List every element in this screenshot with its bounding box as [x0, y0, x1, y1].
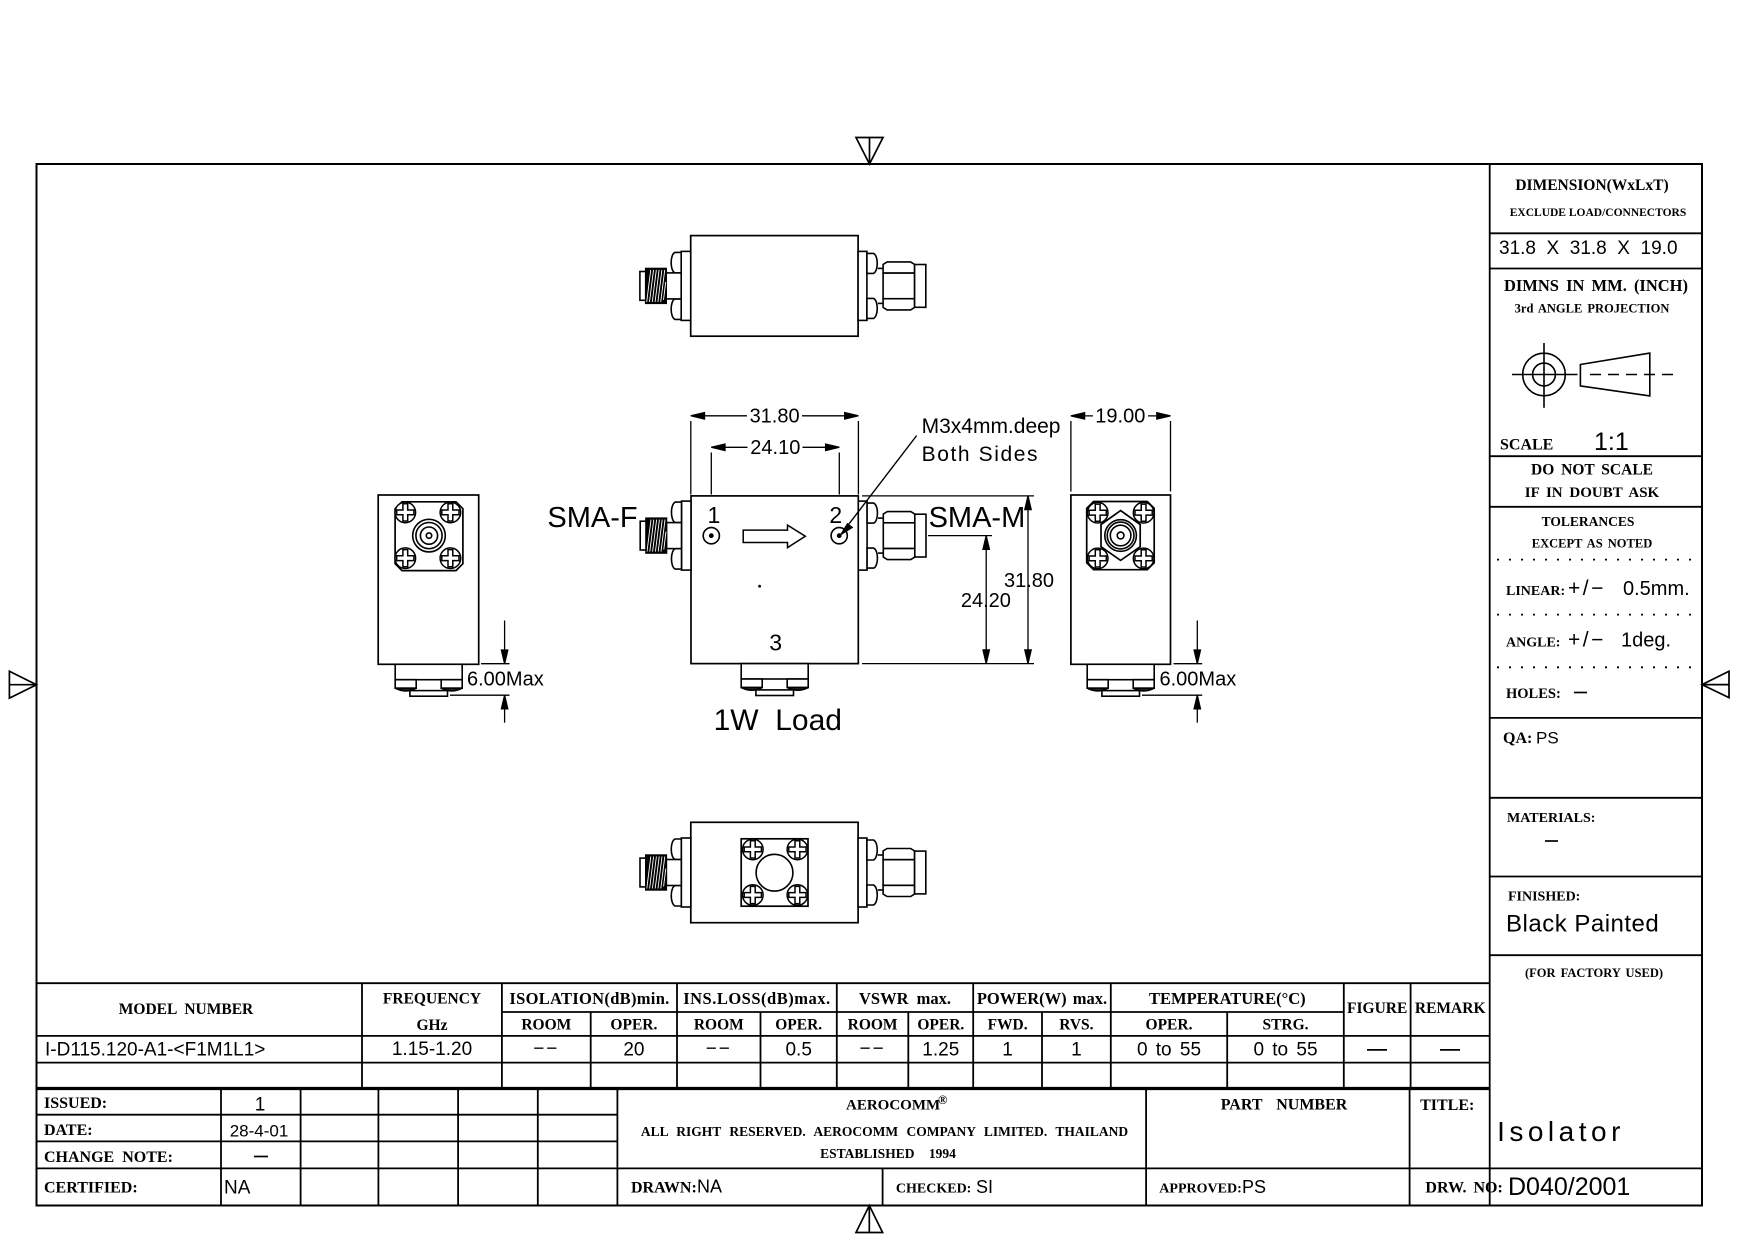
right registration mark: [1702, 671, 1729, 698]
svg-text:−−: −−: [706, 1039, 732, 1060]
QA block: [1503, 729, 1559, 748]
svg-text:IF IN DOUBT ASK: IF IN DOUBT ASK: [1525, 485, 1660, 501]
left view flange plate: [395, 502, 463, 571]
svg-text:QA:: QA:: [1503, 730, 1532, 747]
right view load tab: [1087, 664, 1154, 696]
finished block: [1506, 890, 1659, 938]
right view SMA-M face circles: [1105, 520, 1137, 552]
svg-text:ROOM: ROOM: [848, 1017, 898, 1034]
right side view body: [1071, 495, 1171, 664]
svg-text:FWD.: FWD.: [988, 1017, 1028, 1034]
front view SMA-M connector: [858, 501, 926, 570]
tolerances block: [1506, 514, 1690, 702]
svg-text:TOLERANCES: TOLERANCES: [1542, 514, 1635, 529]
svg-text:0.5: 0.5: [785, 1040, 811, 1061]
bottom view load resistor circle: [756, 854, 793, 891]
svg-text:FREQUENCY: FREQUENCY: [383, 991, 481, 1008]
svg-text:3rd ANGLE PROJECTION: 3rd ANGLE PROJECTION: [1515, 302, 1670, 316]
left view load tab: [395, 664, 462, 696]
svg-text:1.15-1.20: 1.15-1.20: [392, 1039, 472, 1060]
svg-text:GHz: GHz: [417, 1017, 448, 1034]
centre mark dot: [758, 585, 761, 588]
svg-text:ISOLATION(dB)min.: ISOLATION(dB)min.: [509, 989, 669, 1008]
tolerance dotted separators: [1497, 560, 1695, 668]
svg-text:CERTIFIED:: CERTIFIED:: [44, 1180, 138, 1197]
drawn cell: [631, 1177, 722, 1197]
M3 tapped hole note: [922, 415, 1061, 466]
svg-text:SCALE: SCALE: [1500, 437, 1553, 454]
svg-text:20: 20: [623, 1040, 644, 1061]
checked cell: [896, 1177, 993, 1197]
svg-text:NA: NA: [224, 1178, 251, 1199]
leader line to port 2: [841, 436, 917, 535]
svg-text:LINEAR:: LINEAR:: [1506, 584, 1565, 599]
svg-text:(FOR FACTORY USED): (FOR FACTORY USED): [1525, 966, 1663, 980]
svg-text:31.8 X 31.8 X 19.0: 31.8 X 31.8 X 19.0: [1499, 238, 1678, 259]
svg-text:31.80: 31.80: [1004, 570, 1054, 592]
svg-text:CHECKED:: CHECKED:: [896, 1182, 971, 1197]
svg-text:OPER.: OPER.: [917, 1017, 964, 1034]
forward direction arrow: [743, 525, 805, 548]
svg-text:DRAWN:: DRAWN:: [631, 1180, 697, 1197]
svg-text:ALL RIGHT RESERVED. AEROCOMM C: ALL RIGHT RESERVED. AEROCOMM COMPANY LIM…: [641, 1124, 1129, 1139]
svg-text:DRW. NO:: DRW. NO:: [1425, 1180, 1502, 1197]
svg-text:DATE:: DATE:: [44, 1122, 93, 1139]
right view hex nut silhouette: [1101, 511, 1140, 561]
svg-text:19.00: 19.00: [1095, 406, 1145, 428]
svg-text:24.10: 24.10: [750, 437, 800, 459]
right info panel grid: [1490, 164, 1702, 1206]
bottom registration mark: [856, 1206, 883, 1233]
dimension 31.80 vertical: [862, 496, 1034, 664]
title block grid: [37, 1089, 1703, 1205]
bottom view load plate: [741, 839, 808, 906]
port 2 hole: [831, 528, 847, 544]
svg-text:M3x4mm.deep: M3x4mm.deep: [922, 415, 1061, 438]
svg-text:DIMNS IN MM. (INCH): DIMNS IN MM. (INCH): [1504, 276, 1688, 295]
svg-text:DO NOT SCALE: DO NOT SCALE: [1531, 462, 1653, 479]
svg-text:0 to 55: 0 to 55: [1253, 1040, 1317, 1061]
left side view body: [378, 495, 479, 664]
dimension 19.00 horizontal: [1071, 413, 1171, 492]
svg-text:EXCEPT AS NOTED: EXCEPT AS NOTED: [1532, 537, 1652, 551]
svg-text:EXCLUDE LOAD/CONNECTORS: EXCLUDE LOAD/CONNECTORS: [1510, 207, 1686, 219]
svg-text:0.5mm.: 0.5mm.: [1623, 578, 1690, 600]
port 1 hole: [703, 528, 719, 544]
svg-text:INS.LOSS(dB)max.: INS.LOSS(dB)max.: [683, 989, 830, 1008]
svg-text:28-4-01: 28-4-01: [230, 1122, 289, 1141]
svg-text:−−: −−: [859, 1039, 885, 1060]
svg-text:D040/2001: D040/2001: [1508, 1173, 1630, 1201]
svg-text:1: 1: [1002, 1040, 1013, 1061]
top view body: [691, 236, 858, 337]
svg-text:FIGURE: FIGURE: [1347, 1000, 1407, 1017]
svg-text:1: 1: [1071, 1040, 1082, 1061]
svg-text:ROOM: ROOM: [694, 1017, 744, 1034]
dimension header text: [1510, 177, 1686, 219]
svg-text:1:1: 1:1: [1594, 428, 1629, 456]
svg-text:SI: SI: [976, 1177, 993, 1197]
certified row: [44, 1178, 251, 1199]
svg-text:SMA-F: SMA-F: [547, 502, 637, 534]
drawing number cell: [1425, 1173, 1630, 1201]
svg-text:POWER(W) max.: POWER(W) max.: [977, 989, 1107, 1008]
right view flange plate: [1087, 502, 1155, 570]
svg-text:1: 1: [708, 502, 721, 528]
dimension 31.80 horizontal: [691, 413, 859, 495]
svg-text:0 to 55: 0 to 55: [1137, 1040, 1201, 1061]
svg-text:ANGLE:: ANGLE:: [1506, 636, 1560, 651]
issued row: [44, 1095, 265, 1116]
svg-text:PS: PS: [1242, 1177, 1266, 1197]
svg-text:VSWR max.: VSWR max.: [859, 989, 951, 1008]
sheet border frame: [37, 164, 1703, 1206]
svg-text:OPER.: OPER.: [775, 1017, 822, 1034]
figure and remark dashes: [1367, 1049, 1460, 1051]
bottom view load screws: [743, 839, 764, 860]
svg-text:Black Painted: Black Painted: [1506, 911, 1659, 938]
svg-text:MATERIALS:: MATERIALS:: [1507, 811, 1595, 826]
svg-text:Isolator: Isolator: [1497, 1116, 1625, 1147]
change note row: [44, 1149, 268, 1166]
svg-text:ISSUED:: ISSUED:: [44, 1095, 107, 1112]
svg-text:TEMPERATURE(°C): TEMPERATURE(°C): [1149, 989, 1306, 1008]
do not scale note: [1525, 462, 1660, 502]
right view 6.00Max dimension: [1142, 621, 1202, 723]
left registration mark: [9, 671, 36, 698]
dimension 24.10 horizontal: [711, 444, 839, 494]
svg-text:PS: PS: [1536, 729, 1559, 748]
svg-text:6.00Max: 6.00Max: [1160, 669, 1237, 691]
front view body: [691, 496, 858, 664]
svg-text:+/−: +/−: [1568, 577, 1606, 600]
bottom view body: [691, 822, 858, 922]
svg-text:FINISHED:: FINISHED:: [1508, 890, 1580, 905]
left view 6.00Max dimension: [450, 621, 510, 723]
spec table grid: [37, 983, 1490, 1088]
svg-text:SMA-M: SMA-M: [929, 502, 1026, 534]
svg-text:MODEL NUMBER: MODEL NUMBER: [119, 1001, 254, 1018]
svg-text:DIMENSION(WxLxT): DIMENSION(WxLxT): [1515, 177, 1668, 194]
svg-text:I-D115.120-A1-<F1M1L1>: I-D115.120-A1-<F1M1L1>: [45, 1040, 265, 1061]
dimension 24.20 vertical: [928, 536, 992, 664]
third angle projection symbol: [1512, 343, 1677, 408]
right view flange screws: [1087, 502, 1108, 523]
units note: [1504, 276, 1688, 316]
svg-text:STRG.: STRG.: [1262, 1017, 1308, 1034]
svg-text:ESTABLISHED 1994: ESTABLISHED 1994: [820, 1146, 956, 1161]
svg-text:HOLES:: HOLES:: [1506, 686, 1561, 702]
company block: [641, 1093, 1129, 1161]
svg-text:RVS.: RVS.: [1059, 1017, 1093, 1034]
svg-text:REMARK: REMARK: [1415, 1000, 1486, 1017]
svg-text:−−: −−: [533, 1039, 559, 1060]
svg-text:APPROVED:: APPROVED:: [1159, 1182, 1241, 1197]
spec table data row: [45, 1039, 1318, 1061]
materials block: [1507, 811, 1595, 841]
date row: [44, 1122, 288, 1141]
svg-text:1.25: 1.25: [922, 1040, 959, 1061]
bottom view SMA-F connector: [640, 838, 691, 907]
svg-text:CHANGE NOTE:: CHANGE NOTE:: [44, 1149, 173, 1166]
top view SMA-M connector: [858, 251, 926, 320]
left view flange screws: [395, 502, 416, 523]
left view SMA-F face circles: [413, 519, 446, 552]
svg-text:2: 2: [829, 502, 842, 528]
top view SMA-F connector: [640, 251, 691, 320]
svg-text:®: ®: [938, 1093, 947, 1107]
front view SMA-F connector: [640, 501, 691, 570]
title cell: [1420, 1097, 1625, 1147]
bottom view SMA-M connector: [858, 838, 926, 907]
svg-text:ROOM: ROOM: [521, 1017, 571, 1034]
svg-text:OPER.: OPER.: [1146, 1017, 1193, 1034]
svg-text:TITLE:: TITLE:: [1420, 1097, 1474, 1114]
svg-text:6.00Max: 6.00Max: [467, 669, 544, 691]
svg-text:+/−: +/−: [1568, 629, 1606, 652]
front view load tab: [741, 664, 808, 696]
svg-text:1: 1: [255, 1095, 266, 1116]
top registration mark: [856, 138, 883, 165]
svg-text:AEROCOMM: AEROCOMM: [846, 1098, 940, 1114]
svg-text:3: 3: [769, 630, 782, 656]
svg-text:1W Load: 1W Load: [714, 704, 842, 737]
approved cell: [1159, 1177, 1266, 1197]
svg-text:Both Sides: Both Sides: [922, 443, 1040, 466]
spec table headers: [119, 989, 1486, 1034]
svg-text:1deg.: 1deg.: [1621, 630, 1671, 652]
svg-text:OPER.: OPER.: [610, 1017, 657, 1034]
svg-text:31.80: 31.80: [750, 406, 800, 428]
scale note: [1500, 428, 1629, 456]
svg-text:NA: NA: [697, 1177, 722, 1197]
svg-text:PART NUMBER: PART NUMBER: [1221, 1097, 1348, 1114]
svg-text:24.20: 24.20: [961, 590, 1011, 612]
